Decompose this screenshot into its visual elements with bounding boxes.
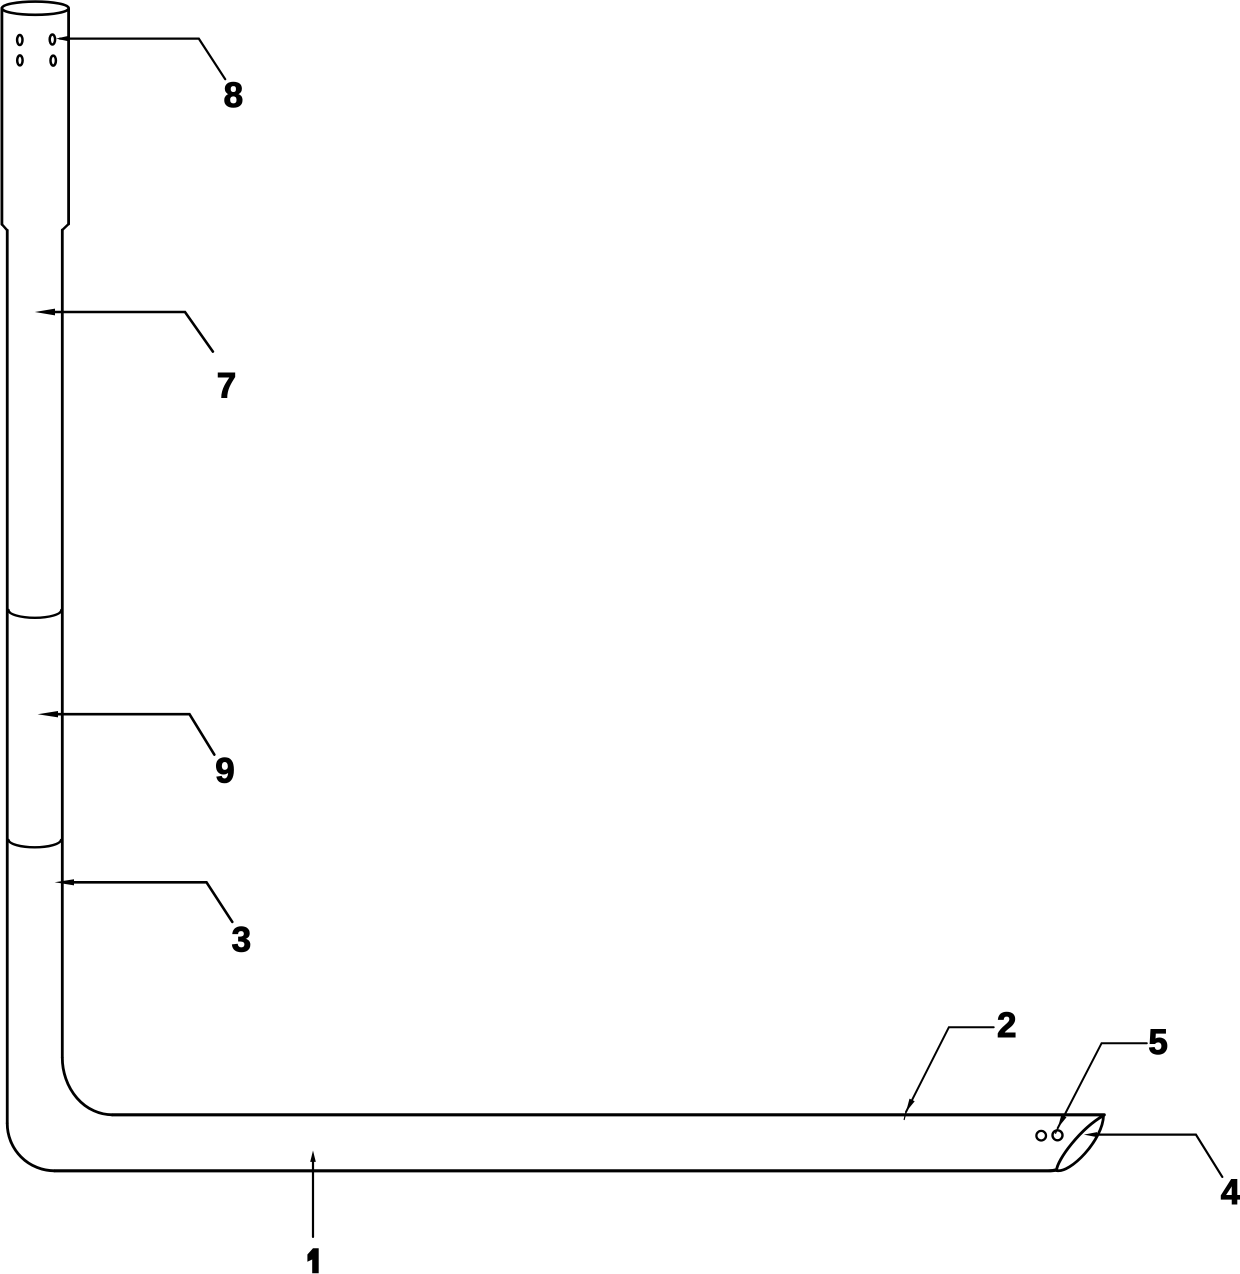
- wire narrow-section left wall: [6, 230, 9, 1123]
- svg-text:4: 4: [1221, 1173, 1240, 1212]
- svg-text:8: 8: [224, 76, 243, 115]
- leader 9 arrowhead: [38, 711, 58, 717]
- bend outer arc: [7, 1123, 54, 1171]
- taper right shoulder: [62, 224, 68, 230]
- tube top opening ellipse: [2, 2, 69, 15]
- wire horizontal tube top line: [112, 1113, 1104, 1116]
- hole bottom-right: [51, 56, 56, 66]
- wire wide-section left wall: [0, 8, 3, 224]
- side hole left on horizontal tube: [1036, 1131, 1046, 1141]
- leader 5 arrowhead: [1058, 1115, 1067, 1128]
- leader 4 arrowhead: [1084, 1132, 1097, 1137]
- svg-text:9: 9: [215, 751, 234, 790]
- leader 4 shaft: [1095, 1135, 1222, 1177]
- svg-text:2: 2: [997, 1006, 1016, 1045]
- leader 8 arrowhead: [56, 36, 69, 42]
- leader 9 shaft: [52, 714, 214, 754]
- side hole right on horizontal tube: [1053, 1130, 1063, 1140]
- leader 7 shaft: [50, 312, 213, 352]
- leader 2 shaft: [906, 1027, 994, 1112]
- bevel tip right arc: [1057, 1116, 1104, 1171]
- leader 5 overshoot: [1056, 1128, 1058, 1133]
- segment joint arc upper: [9, 610, 62, 618]
- leader 1 arrowhead: [310, 1151, 316, 1162]
- hole top-right: [50, 35, 55, 45]
- wire narrow-section right wall: [61, 230, 64, 1058]
- leader 5 shaft: [1058, 1043, 1147, 1128]
- leader 3 arrowhead: [55, 879, 74, 885]
- leader 1 shaft: [312, 1160, 314, 1237]
- svg-text:3: 3: [232, 921, 251, 960]
- leader 2 overshoot: [904, 1112, 906, 1120]
- wire wide-section right wall: [67, 9, 70, 224]
- leader 7 arrowhead: [35, 309, 55, 316]
- wire horizontal tube bottom line: [55, 1170, 1057, 1171]
- bevel tip left arc: [1057, 1116, 1104, 1171]
- taper left shoulder: [2, 224, 7, 230]
- svg-text:7: 7: [217, 367, 236, 406]
- svg-text:5: 5: [1148, 1023, 1167, 1062]
- leader 3 shaft: [68, 882, 232, 922]
- label 1: [307, 1248, 318, 1273]
- leader 2 arrowhead: [906, 1099, 915, 1112]
- segment joint arc lower: [9, 840, 62, 847]
- hole top-left: [17, 35, 22, 45]
- leader 8 shaft: [60, 39, 225, 80]
- bend inner arc: [62, 1058, 112, 1115]
- hole bottom-left: [17, 55, 22, 65]
